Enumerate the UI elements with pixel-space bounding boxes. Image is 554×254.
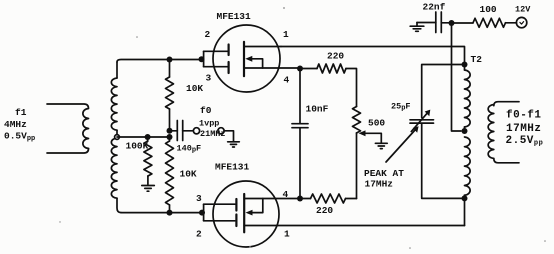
svg-text:10K: 10K [180,169,197,180]
terminal: 12V supply [516,17,526,27]
wire: supply node to 100 resistor [452,22,474,24]
Q2 gate electrodes [235,199,237,226]
transistor Q1 MFE131 (upper) body [213,25,280,92]
ground (pot wiper) [375,143,387,148]
junction: 100K takeoff [145,134,151,140]
Q1 substrate arrow [245,56,262,68]
transistor Q2 MFE131 (lower) body [213,181,279,247]
svg-text:2: 2 [205,29,211,40]
Q1 source lead (pin 4) [244,67,298,69]
svg-text:4MHz: 4MHz [4,119,27,130]
svg-text:220: 220 [327,51,344,62]
svg-text:12V: 12V [515,5,531,15]
wire: T2 bottom to drain rail [464,198,466,225]
Q1 gate tie loop (pins 2,3) [204,51,228,66]
wire: Q1 drain to T2 top [281,47,465,62]
junction: T2 center tap [462,128,468,134]
svg-text:100: 100 [480,4,497,15]
wire: T1 secondary top to U1 gate rail [117,60,204,63]
svg-text:25pF: 25pF [391,102,411,113]
junction: bias node / 140pF branch [167,128,173,134]
svg-text:3: 3 [206,73,212,84]
Q2 substrate arrow [246,199,263,216]
junction: T2 primary bottom [462,195,468,201]
Q1 gate electrodes [228,45,230,74]
svg-text:100K: 100K [126,141,149,152]
resistor 10K (lower bias) [166,137,174,213]
resistor 100K [144,137,152,185]
junction: supply node [449,20,455,26]
wire: 140pF to f0 input terminal [183,130,194,132]
svg-text:3: 3 [196,193,202,204]
capacitor 25pF (trimmer) [410,110,434,132]
pot wiper to ground [359,130,382,142]
ground (f0 input) [228,142,240,147]
svg-text:17MHz: 17MHz [365,179,394,190]
resistor 220 (upper) [300,64,357,107]
junction: rail / 10K top [167,57,173,63]
wire: supply node down to T2 center tap [452,23,462,131]
junction: bias node / tap line [167,134,173,140]
svg-text:500: 500 [368,118,385,129]
junction: Q1 source node [297,66,303,72]
resistor 100 [473,18,505,27]
svg-text:1vpp: 1vpp [199,119,219,129]
wire: 100 to 12V terminal [506,22,517,24]
svg-text:22nf: 22nf [423,2,446,13]
svg-text:10nF: 10nF [306,104,329,115]
svg-text:f0-f1: f0-f1 [506,110,542,122]
wire: T1 tap to bias node [117,136,170,138]
svg-text:2: 2 [196,229,202,240]
transformer T2 primary winding [465,65,471,199]
node: U2 gate junction [199,210,205,216]
potentiometer 500 [353,107,361,199]
wire: Q2 source lead (pin 4) [244,198,310,200]
svg-text:4: 4 [284,75,290,86]
T1 secondary center tap [115,135,120,140]
svg-text:f0: f0 [200,105,212,116]
wire: ground to 22nF [417,22,436,24]
svg-text:140pF: 140pF [177,144,202,155]
transformer T1 primary winding [47,104,89,153]
Q2 drain lead (pin 1) / bottom rail to T2 [244,225,464,227]
svg-text:1: 1 [284,229,290,240]
ground (below 100K) [142,186,155,192]
capacitor 22nF [436,12,442,33]
resistor 220 (lower) [311,194,357,203]
resistor 10K (upper bias) [166,60,174,132]
node: U1 gate junction [199,56,205,62]
Q1 drain lead (pin 1) [244,46,281,48]
svg-text:T2: T2 [471,54,483,65]
terminal: f0 input (return) [218,128,224,134]
junction: T2 primary top [462,62,468,68]
transformer T2 secondary winding [488,102,519,163]
svg-text:17MHz: 17MHz [506,123,542,135]
svg-text:21MHz: 21MHz [200,129,226,139]
svg-text:1: 1 [283,29,289,40]
wire: T2 top to 25pF [422,65,465,118]
junction: lower rail / 10K [167,210,173,216]
Q2 channel [243,194,245,232]
wire: T1 secondary bottom to U2 gate rail [121,212,204,214]
ground (22nF decoupling) [410,23,424,32]
capacitor 10nF (in series) [292,69,308,199]
svg-text:f1: f1 [15,107,27,118]
wire: bias node to 140pF [170,130,178,132]
svg-text:220: 220 [316,205,333,216]
capacitor 140pF [177,121,182,141]
svg-text:PEAK AT: PEAK AT [364,168,404,179]
transformer T1 secondary winding [111,62,121,213]
wire: 22nF to supply node [441,22,451,24]
svg-text:10K: 10K [186,83,203,94]
svg-text:MFE131: MFE131 [217,11,252,22]
wire: f0 return to ground [224,131,233,141]
terminal: f0 input (hot) [193,128,199,134]
Q1 channel [243,42,245,76]
Q2 gate tie loop (pins 3,2) [204,204,235,221]
svg-text:4: 4 [283,189,289,200]
wire: 25pF to T2 bottom [422,123,465,198]
junction: Q2 source node [297,196,303,202]
svg-text:MFE131: MFE131 [215,162,250,173]
annotation arrow: peak at 17MHz [386,126,419,162]
